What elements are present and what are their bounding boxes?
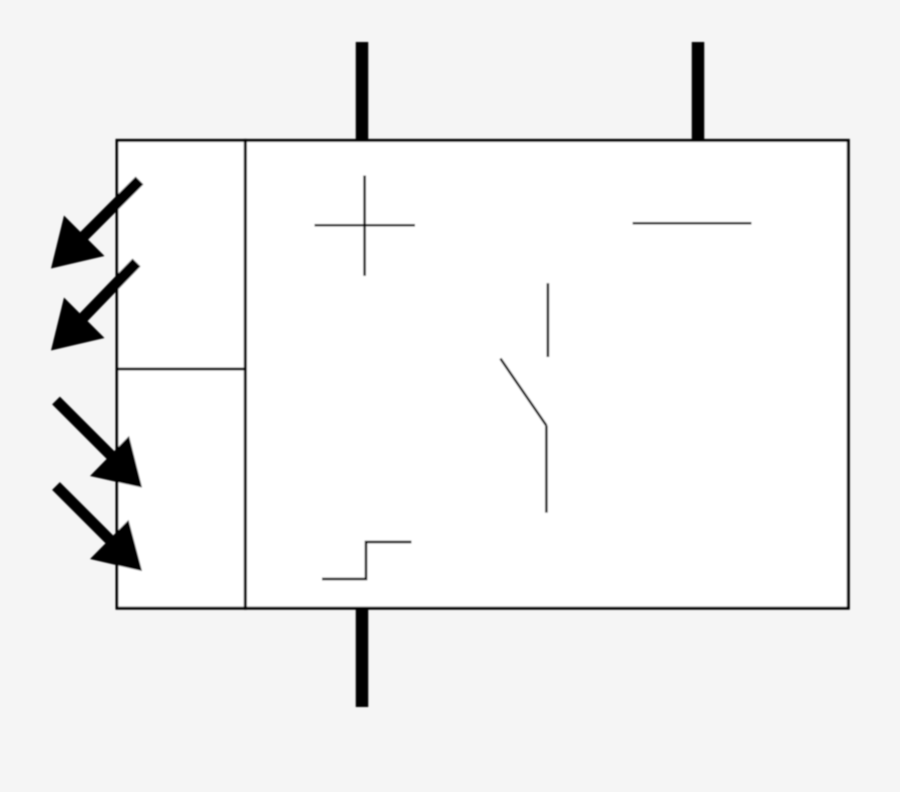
plus sign (positive supply mark): [315, 176, 416, 276]
emitted light arrow A2: [51, 263, 137, 351]
received light arrow A3: [56, 401, 142, 488]
divider between emitter and receiver cells: [117, 368, 245, 371]
main body box: [245, 140, 848, 608]
switch contact S1 (normally open output contact): [500, 283, 548, 512]
terminal pin P1 (top left supply pin): [356, 42, 369, 140]
optical head box (left section): [117, 140, 245, 608]
minus sign (negative supply mark): [633, 222, 752, 225]
emitted light arrow A1: [51, 181, 140, 269]
terminal pin P2 (top right supply pin): [692, 42, 705, 140]
terminal pin P3 (bottom output pin): [356, 608, 369, 707]
received light arrow A4: [56, 486, 142, 571]
step function symbol (switching output characteristic): [322, 542, 412, 579]
